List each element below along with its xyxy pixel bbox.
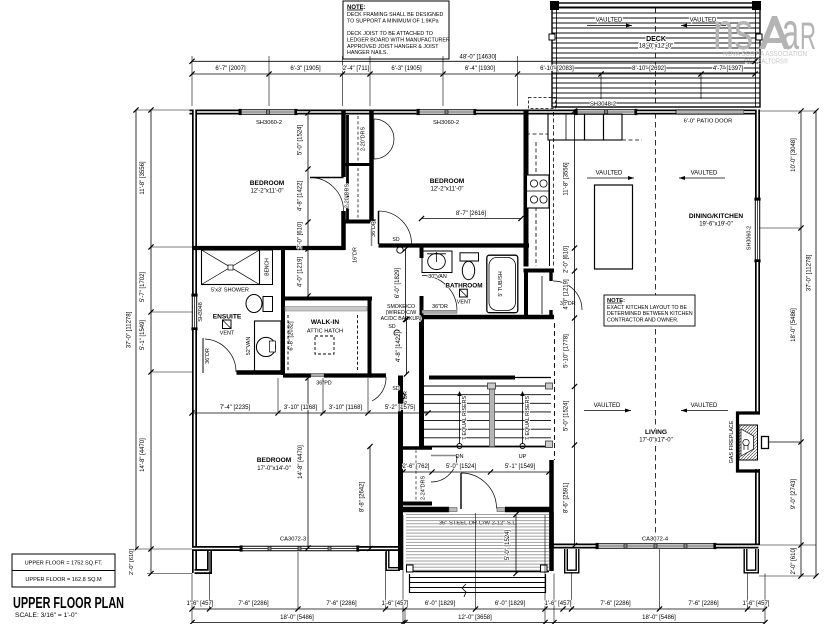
walkin rod east [357, 315, 359, 372]
svg-text:1'-6" [457]: 1'-6" [457] [743, 601, 770, 607]
svg-text:1'-6" [457]: 1'-6" [457] [545, 601, 572, 607]
bedroom3 bottom wall east [359, 546, 403, 551]
bedroom3 right bump [388, 550, 401, 569]
svg-text:TO SUPPORT A MINIMUM OF 1.9KPa: TO SUPPORT A MINIMUM OF 1.9KPa [347, 18, 439, 24]
hall-living wall [549, 460, 554, 548]
svg-text:6'-0" [1829]: 6'-0" [1829] [395, 268, 401, 299]
kitchen note box [604, 295, 695, 326]
svg-text:SD: SD [388, 324, 395, 330]
svg-text:CA3072-3: CA3072-3 [280, 537, 306, 543]
svg-text:5'x3' SHOWER: 5'x3' SHOWER [211, 288, 249, 294]
svg-text:48'-0" [14630]: 48'-0" [14630] [460, 55, 497, 61]
bathroom toilet [460, 253, 479, 261]
shower bench [260, 250, 273, 285]
svg-text:LIVING: LIVING [645, 429, 667, 436]
walkin north wall [283, 297, 372, 301]
stair north wall [429, 376, 515, 380]
svg-text:BENCH: BENCH [265, 258, 271, 276]
closet1 left wall [346, 115, 349, 163]
hall dim 6'-0 [395, 246, 408, 322]
svg-text:37'-0" [11278]: 37'-0" [11278] [127, 311, 133, 348]
closet1 doors 2-20DRS [374, 119, 394, 139]
pantry east wall upper [549, 271, 552, 282]
bathroom door 36DR [422, 310, 457, 313]
deck post top-left [550, 1, 559, 10]
exterior left wall lower [192, 330, 197, 573]
svg-text:SCALE: 3/16" = 1'-0": SCALE: 3/16" = 1'-0" [15, 612, 78, 619]
ensuite vent [223, 320, 232, 329]
svg-text:14'-8" [4470]: 14'-8" [4470] [298, 445, 304, 479]
svg-text:SH3060-2: SH3060-2 [747, 226, 753, 250]
stair top edge [424, 385, 551, 387]
deck rail post right [756, 34, 762, 40]
bathroom west wall lower [420, 296, 424, 317]
bathtub 5 TUB/SH [487, 255, 518, 313]
svg-text:1'-6" [457]: 1'-6" [457] [382, 601, 409, 607]
bathroom vanity [422, 251, 452, 273]
svg-text:3'-10" [1168]: 3'-10" [1168] [329, 405, 363, 411]
bathroom south wall [422, 315, 555, 319]
svg-text:10'-0" [3048]: 10'-0" [3048] [791, 138, 797, 172]
svg-text:11'-8" [3556]: 11'-8" [3556] [564, 162, 570, 196]
right segment dims [791, 108, 804, 578]
porch east wall [549, 512, 554, 571]
left overall dim 37'-0" [135, 110, 137, 549]
exterior top wall seg D [637, 110, 676, 115]
deck outline [552, 3, 760, 107]
svg-text:7'-6" [2286]: 7'-6" [2286] [238, 601, 269, 607]
closet2 left wall [346, 166, 349, 220]
kitchen wall return [524, 269, 555, 273]
exterior top wall seg A [190, 110, 240, 115]
fireplace vent [762, 437, 769, 449]
svg-text:2'-4" [711]: 2'-4" [711] [343, 66, 370, 72]
patio door [676, 110, 744, 114]
svg-text:18'-0"x12'-0": 18'-0"x12'-0" [639, 43, 674, 50]
exterior right wall lower [755, 469, 760, 545]
svg-text:2-20"DRS: 2-20"DRS [361, 127, 367, 151]
entry closet rod [415, 450, 417, 501]
front sidelite east [497, 508, 505, 512]
svg-text:5'-0" [1524]: 5'-0" [1524] [505, 530, 511, 561]
stair treads [424, 394, 551, 396]
ensuite door 36DR [202, 338, 204, 373]
svg-text:4'-7" [1397]: 4'-7" [1397] [713, 66, 744, 72]
svg-text:5'-2" [1575]: 5'-2" [1575] [385, 405, 416, 411]
svg-text:GAS FIREPLACE: GAS FIREPLACE [729, 420, 735, 463]
bedroom1 east wall upper [341, 110, 346, 178]
bedroom3 door arc [372, 377, 386, 401]
exterior right wall mid [755, 262, 760, 413]
left dim extension lines [136, 109, 192, 111]
bedroom3 east dim [360, 444, 373, 551]
svg-text:4'-8" [1422]: 4'-8" [1422] [396, 332, 402, 363]
porch post left [407, 565, 414, 572]
svg-text:SD: SD [392, 237, 399, 243]
svg-text:VAULTED: VAULTED [691, 171, 718, 177]
walkin rod west [287, 315, 289, 372]
svg-text:5' TUB/SH: 5' TUB/SH [498, 271, 504, 296]
closet column dims [298, 110, 311, 298]
svg-text:6'-3" [1905]: 6'-3" [1905] [290, 66, 321, 72]
right overall dim 37'-0" [815, 111, 817, 576]
left segment dims [140, 107, 154, 576]
window SH3048 ensuite [191, 294, 193, 330]
kitchen island [595, 185, 633, 269]
svg-text:5'-0" [1524]: 5'-0" [1524] [298, 125, 304, 156]
svg-text:SH3048: SH3048 [198, 302, 204, 321]
svg-text:DECK FRAMING SHALL BE DESIGNED: DECK FRAMING SHALL BE DESIGNED [347, 12, 444, 18]
bedroom2 door [378, 211, 380, 244]
bedroom1 door [310, 177, 344, 179]
svg-text:SH3060-2: SH3060-2 [433, 120, 459, 126]
area box [12, 554, 115, 587]
svg-text:6'-7" [2007]: 6'-7" [2007] [215, 66, 246, 72]
kitchen upper dashed run [526, 133, 548, 135]
svg-text:18'-0" [5486]: 18'-0" [5486] [642, 615, 676, 621]
pantry west wall [524, 272, 528, 318]
walkin east wall [368, 299, 372, 378]
entry closet door [431, 455, 457, 457]
svg-text:2'-0" [610]: 2'-0" [610] [298, 222, 304, 249]
svg-text:36"PD: 36"PD [316, 381, 332, 387]
bedroom3 bottom wall west [192, 546, 240, 551]
svg-text:4'-0" [1219]: 4'-0" [1219] [298, 257, 304, 288]
svg-text:DINING/KITCHEN: DINING/KITCHEN [689, 213, 743, 220]
svg-text:2-24"DRS: 2-24"DRS [421, 476, 427, 500]
fireplace firebox [739, 425, 758, 460]
walkin south wall east [324, 373, 372, 377]
attic hatch [315, 336, 334, 354]
stair newel top right [546, 383, 553, 389]
front wall east [505, 507, 552, 513]
bedroom2 width dim [422, 218, 522, 220]
svg-text:HANGER NAILS.: HANGER NAILS. [347, 50, 388, 56]
svg-text:6'-0" [1829]: 6'-0" [1829] [495, 601, 526, 607]
closet back wall [369, 110, 374, 223]
exterior top wall seg C [476, 110, 575, 115]
stair newel top mid [488, 383, 496, 389]
kitchen fridge box [548, 114, 585, 140]
hall dim 4'-8 [396, 317, 409, 377]
svg-text:11'-8" [3556]: 11'-8" [3556] [140, 161, 146, 195]
svg-text:DETERMINED BETWEEN KITCHEN: DETERMINED BETWEEN KITCHEN [607, 311, 693, 317]
svg-text:12'-0" [3658]: 12'-0" [3658] [458, 615, 492, 621]
svg-text:8'-7" [2616]: 8'-7" [2616] [456, 211, 487, 217]
top segment dims [189, 66, 757, 76]
svg-text:ATTIC HATCH: ATTIC HATCH [307, 329, 343, 335]
svg-text:VENT: VENT [220, 331, 235, 337]
pantry east wall lower [549, 310, 552, 319]
exterior top wall seg E [744, 110, 759, 115]
svg-text:7 EQUAL RISERS: 7 EQUAL RISERS [525, 396, 531, 441]
deck post top-right [752, 1, 761, 10]
svg-text:8'-10" [2692]: 8'-10" [2692] [632, 66, 666, 72]
window SH3060-2 bedroom1 [239, 109, 297, 111]
svg-text:NOVA SCOTIA ASSOCIATION: NOVA SCOTIA ASSOCIATION [723, 51, 807, 58]
svg-text:UPPER FLOOR = 1752 SQ.FT.: UPPER FLOOR = 1752 SQ.FT. [25, 561, 103, 567]
deck ridge dashed line [655, 8, 657, 107]
svg-text:6'-8" [2032]: 6'-8" [2032] [289, 321, 295, 351]
top overall dim 48'-0" [192, 60, 755, 62]
window SH3048-2 kitchen [575, 109, 637, 111]
closet1 rod dashed [357, 116, 359, 162]
svg-text:BEDROOM: BEDROOM [430, 178, 465, 185]
ridge line dashed [655, 113, 657, 543]
stair width dims [400, 464, 551, 474]
svg-text:2'-0" [610]: 2'-0" [610] [564, 246, 570, 273]
svg-text:VENT: VENT [457, 300, 472, 306]
vault edge dashed at stairs [554, 323, 556, 460]
ensuite south wall [237, 370, 284, 375]
svg-text:8'-8" [2642]: 8'-8" [2642] [360, 482, 366, 513]
svg-text:SH3048-2: SH3048-2 [590, 102, 616, 108]
svg-text:UP: UP [519, 454, 527, 460]
svg-text:BATHROOM: BATHROOM [445, 283, 482, 290]
closet2 floor wall [345, 220, 376, 224]
walkin south wall west [283, 373, 311, 377]
svg-text:5'-10" [1778]: 5'-10" [1778] [564, 334, 570, 368]
exterior right wall upper [755, 110, 760, 199]
svg-text:12'-2"x11'-0": 12'-2"x11'-0" [430, 187, 463, 193]
hall south wall stub [370, 373, 387, 377]
ensuite-walkin wall [281, 250, 285, 375]
bedroom1 south wall [192, 246, 345, 250]
closet2 access door 16DR [371, 229, 373, 246]
porch depth dim [505, 512, 519, 576]
shower stall [202, 250, 260, 285]
svg-text:3'-10" [1168]: 3'-10" [1168] [284, 405, 318, 411]
NSAR watermark logo [713, 3, 816, 66]
svg-text:7'-4" [2235]: 7'-4" [2235] [220, 405, 251, 411]
svg-text:4'-8" [1422]: 4'-8" [1422] [298, 181, 304, 212]
kitchen counter dashed [553, 112, 555, 266]
bedroom3 height dim [307, 378, 309, 548]
svg-text:6'-4" [1930]: 6'-4" [1930] [465, 66, 496, 72]
svg-text:AC/DC BACKUP): AC/DC BACKUP) [381, 316, 422, 322]
bottom overall dims [189, 615, 767, 624]
bottom dim extension lines [191, 574, 193, 610]
svg-text:37'-0" [11278]: 37'-0" [11278] [807, 254, 813, 291]
svg-text:5'-1" [1549]: 5'-1" [1549] [140, 320, 146, 351]
closet2 rod dashed [357, 168, 359, 218]
svg-text:52"VAN: 52"VAN [246, 337, 252, 356]
bottom-right wing wall right [746, 549, 758, 572]
ensuite vanity [255, 321, 282, 371]
front wall west [400, 507, 449, 513]
walkin pocket door 36PD [311, 373, 324, 376]
hall width dim extensions [277, 378, 279, 413]
svg-text:5'-0" [1524]: 5'-0" [1524] [446, 464, 477, 470]
svg-text:VAULTED: VAULTED [596, 18, 623, 24]
bathroom north wall [379, 243, 530, 247]
svg-text:7'-6" [2286]: 7'-6" [2286] [326, 601, 357, 607]
window SH3060-2 right wall [754, 198, 756, 262]
bottom segment dims [187, 601, 770, 612]
svg-text:17'-0"x17'-0": 17'-0"x17'-0" [639, 438, 673, 444]
window SH3060-2 bedroom2 [417, 109, 476, 111]
bottom-left bump [195, 549, 210, 572]
pantry inner line [541, 276, 543, 314]
ensuite toilet [263, 297, 273, 312]
svg-text:2'-0" [610]: 2'-0" [610] [129, 549, 135, 575]
living bottom wall east [716, 544, 759, 549]
porch post right [541, 565, 548, 572]
svg-text:19'-6"x19'-0": 19'-6"x19'-0" [699, 222, 733, 228]
svg-text:2'-0" [610]: 2'-0" [610] [791, 547, 797, 574]
deck rail post left [549, 34, 555, 40]
front door swing [460, 473, 462, 509]
bottom-right wing wall left [566, 549, 578, 572]
fireplace alcove walls [738, 413, 761, 471]
svg-text:SH3060-2: SH3060-2 [256, 120, 282, 126]
living bottom wall west [549, 544, 596, 549]
entry closet top wall [403, 446, 432, 449]
bathroom vent [460, 289, 468, 297]
svg-text:SD: SD [392, 386, 399, 392]
kitchen column dims [564, 108, 578, 548]
kitchen exterior vent dashed box [529, 98, 556, 109]
right dim extension lines [759, 110, 816, 112]
svg-text:UPPER FLOOR = 162.8 SQ.M: UPPER FLOOR = 162.8 SQ.M [25, 577, 102, 583]
svg-text:VAULTED: VAULTED [691, 403, 718, 409]
svg-text:5'-7" [1702]: 5'-7" [1702] [140, 272, 146, 303]
hall width dims [189, 405, 430, 415]
front sidelite west [449, 508, 457, 512]
porch hatch [406, 514, 549, 571]
bedroom1 east wall lower [341, 211, 346, 250]
deck note box [343, 1, 449, 59]
svg-text:12'-2"x11'-0": 12'-2"x11'-0" [250, 189, 283, 195]
svg-text:16"DR: 16"DR [353, 247, 359, 263]
svg-text:18'-0" [5486]: 18'-0" [5486] [280, 615, 314, 621]
svg-text:5'-0" [1524]: 5'-0" [1524] [564, 401, 570, 432]
svg-text:CA3072-4: CA3072-4 [642, 537, 669, 543]
svg-text:CONTRACTOR AND OWNER.: CONTRACTOR AND OWNER. [607, 317, 678, 323]
svg-text:6'-3" [1905]: 6'-3" [1905] [391, 66, 422, 72]
svg-text:6'-0" PATIO DOOR: 6'-0" PATIO DOOR [684, 119, 733, 125]
svg-text:DECK JOIST TO BE ATTACHED TO: DECK JOIST TO BE ATTACHED TO [347, 31, 433, 37]
svg-text:7'-6" [2286]: 7'-6" [2286] [688, 601, 719, 607]
svg-text:9'-0" [2743]: 9'-0" [2743] [791, 479, 797, 510]
svg-text:ENSUITE: ENSUITE [213, 314, 242, 321]
kitchen counter inner dashed [535, 142, 537, 266]
svg-text:WALK-IN: WALK-IN [311, 319, 339, 326]
kitchen counter edge [549, 140, 551, 266]
stair bottom edge [419, 446, 551, 448]
exterior left wall upper [192, 110, 197, 295]
closet1 floor wall [345, 163, 373, 166]
svg-text:14'-8" [4470]: 14'-8" [4470] [140, 438, 146, 472]
svg-text:APPROVED JOIST HANGER & JOIST: APPROVED JOIST HANGER & JOIST [347, 44, 439, 50]
svg-text:UPPER FLOOR PLAN: UPPER FLOOR PLAN [13, 595, 124, 612]
window CA3072-4 living [596, 543, 716, 545]
svg-text:17'-0"x14'-0": 17'-0"x14'-0" [257, 466, 291, 472]
svg-text:VAULTED: VAULTED [594, 403, 621, 409]
svg-text:LEDGER BOARD WITH MANUFACTURER: LEDGER BOARD WITH MANUFACTURER [347, 37, 450, 43]
svg-text:36"DR: 36"DR [205, 348, 211, 364]
kitchen stove [527, 175, 550, 208]
svg-text:6'-10" [2083]: 6'-10" [2083] [540, 66, 574, 72]
bedroom3 east wall [398, 376, 403, 571]
svg-text:BEDROOM: BEDROOM [250, 180, 285, 187]
svg-text:5'-1" [1549]: 5'-1" [1549] [505, 464, 536, 470]
deck floor joist hatch [552, 7, 760, 9]
svg-text:2'-6" [762]: 2'-6" [762] [403, 464, 430, 470]
svg-text:8'-6" [2591]: 8'-6" [2591] [564, 483, 570, 514]
top dim extension lines [191, 56, 193, 106]
svg-text:6'-0" [1829]: 6'-0" [1829] [425, 601, 456, 607]
step break squiggle [462, 584, 466, 597]
stair west wall [419, 317, 424, 449]
svg-text:18'-0" [5486]: 18'-0" [5486] [791, 308, 797, 342]
svg-text:BEDROOM: BEDROOM [257, 457, 292, 464]
fireplace dim connector [768, 441, 801, 443]
exterior top wall seg B [297, 110, 417, 115]
stair newel bottom right [546, 441, 553, 448]
porch bottom edge [406, 571, 549, 573]
svg-text:36"DR: 36"DR [432, 304, 448, 310]
svg-text:7'-6" [2286]: 7'-6" [2286] [600, 601, 631, 607]
svg-text:1'-6" [457]: 1'-6" [457] [187, 601, 214, 607]
stair arrow UP [522, 393, 524, 444]
stair arrow DN [459, 393, 461, 444]
stair divider rail [490, 385, 495, 447]
window CA3072-3 bedroom3 [240, 545, 359, 547]
porch steps [409, 577, 546, 579]
svg-text:VAULTED: VAULTED [596, 171, 623, 177]
svg-text:7 EQUAL RISERS: 7 EQUAL RISERS [462, 396, 468, 441]
svg-text:4'-0" [1219]: 4'-0" [1219] [564, 279, 570, 310]
svg-text:EXACT KITCHEN LAYOUT TO BE: EXACT KITCHEN LAYOUT TO BE [607, 305, 687, 311]
entry closet bottom wall [403, 502, 432, 506]
svg-text:30"VAN: 30"VAN [428, 274, 447, 280]
walkin shelf band [285, 307, 367, 312]
svg-text:2-20"DRS: 2-20"DRS [345, 184, 351, 208]
bedroom2-kitchen wall [524, 110, 529, 267]
bathroom west wall upper [420, 246, 424, 259]
